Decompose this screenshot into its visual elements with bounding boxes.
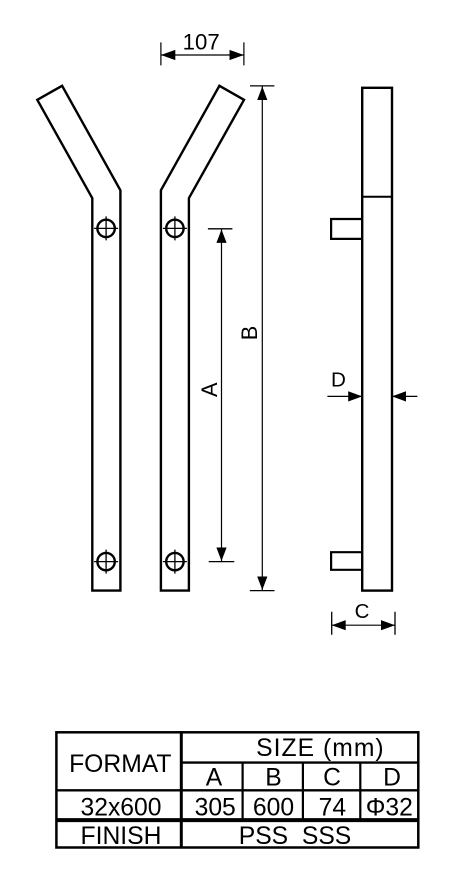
svg-text:B: B (265, 765, 281, 792)
svg-text:32x600: 32x600 (81, 794, 162, 821)
svg-text:FORMAT: FORMAT (69, 751, 171, 778)
svg-text:Φ32: Φ32 (366, 794, 413, 821)
svg-text:SIZE (mm): SIZE (mm) (256, 735, 384, 762)
svg-text:107: 107 (183, 30, 220, 55)
svg-text:FINISH: FINISH (81, 823, 162, 850)
svg-text:305: 305 (195, 794, 236, 821)
svg-text:A: A (197, 382, 222, 397)
svg-text:PSS SSS: PSS SSS (239, 823, 352, 850)
svg-text:A: A (206, 765, 223, 792)
svg-text:B: B (237, 326, 262, 341)
svg-text:D: D (331, 368, 346, 391)
svg-text:74: 74 (319, 794, 346, 821)
svg-text:D: D (383, 765, 401, 792)
svg-text:C: C (323, 765, 341, 792)
svg-text:C: C (355, 601, 370, 623)
svg-text:600: 600 (253, 794, 294, 821)
